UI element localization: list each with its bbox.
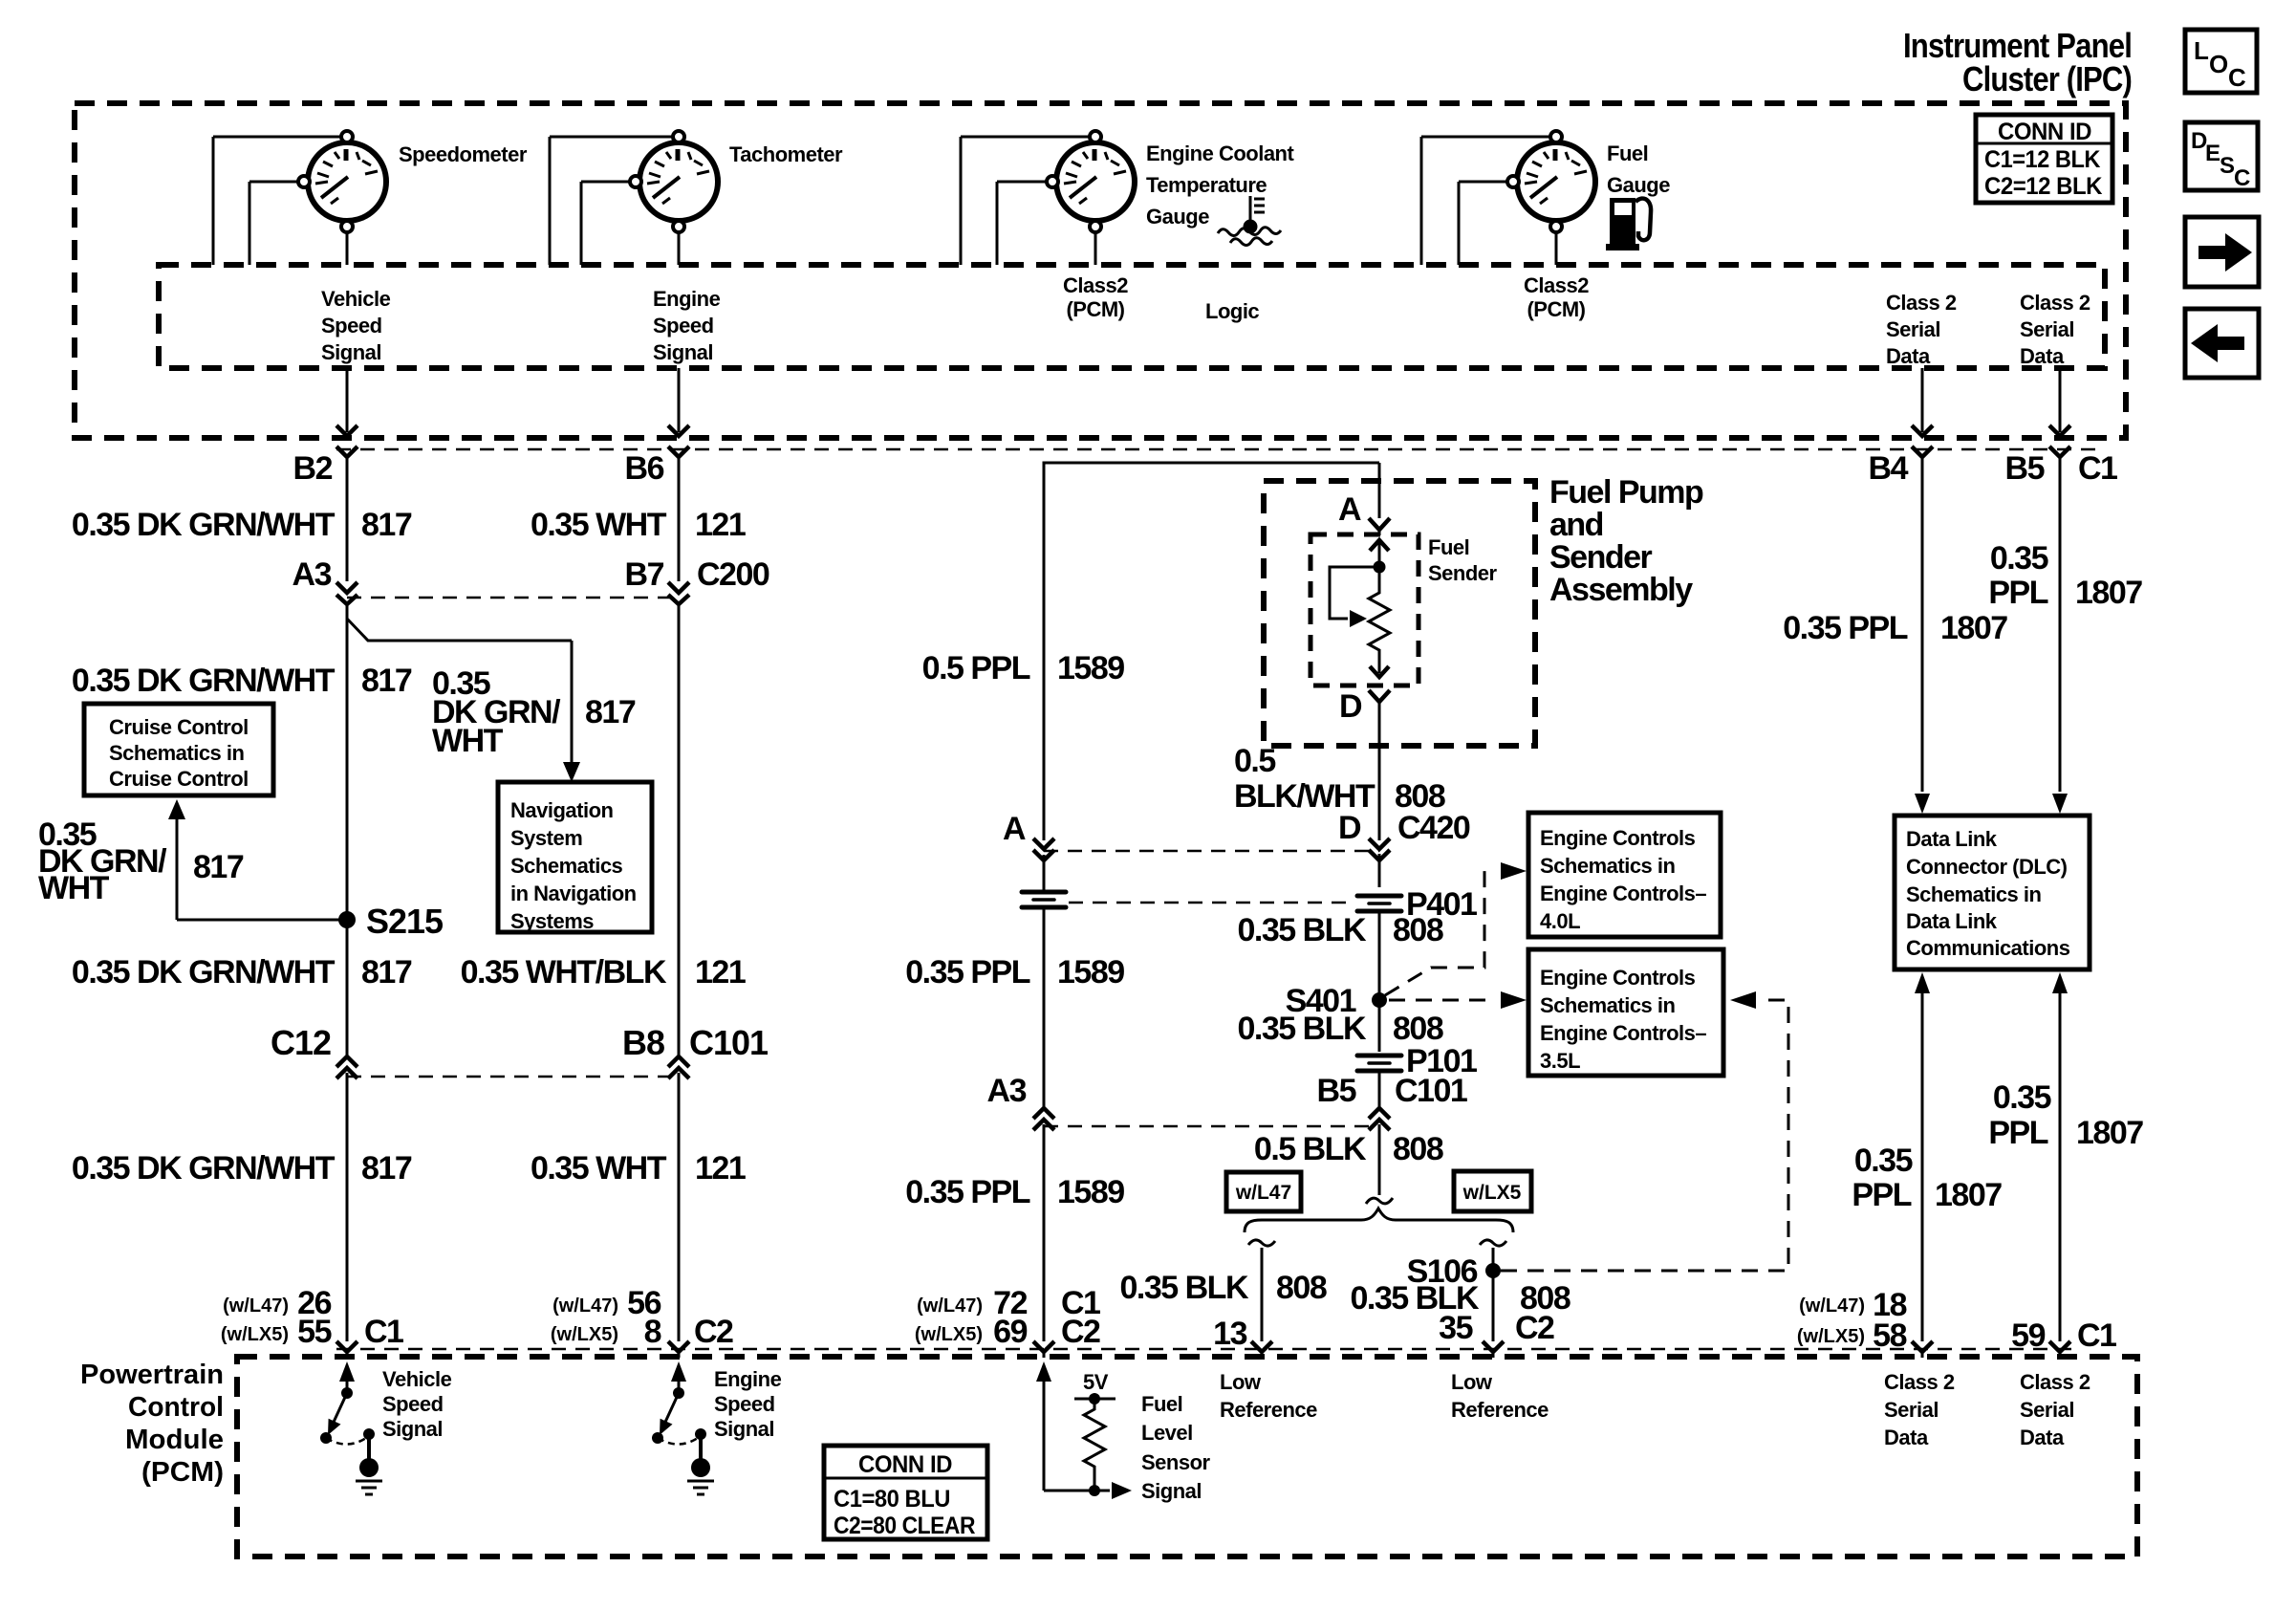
DESC box — [2185, 122, 2258, 191]
wire 1589 segment to inline connector — [1043, 855, 1046, 891]
svg-text:817: 817 — [193, 849, 244, 885]
w/L47 tag box — [1226, 1172, 1301, 1211]
svg-text:Engine: Engine — [714, 1367, 782, 1391]
label Low Reference (w/LX5) — [1451, 1370, 1549, 1422]
ground (ESS) — [687, 1458, 714, 1494]
svg-text:0.35 DK GRN/WHT: 0.35 DK GRN/WHT — [72, 663, 336, 699]
fuel sender potentiometer — [1330, 540, 1390, 677]
svg-text:B7: B7 — [625, 556, 664, 593]
resistor 5V pull-up (PCM) — [1074, 1370, 1116, 1496]
PCM vehicle speed signal switch — [320, 1361, 375, 1460]
svg-text:C1=12 BLK: C1=12 BLK — [1984, 146, 2100, 173]
label 0.5 PPL 1589 — [922, 650, 1125, 686]
svg-text:WHT: WHT — [432, 723, 504, 759]
svg-text:0.35 PPL: 0.35 PPL — [905, 954, 1029, 991]
svg-text:Cluster (IPC): Cluster (IPC) — [1962, 59, 2132, 98]
svg-text:Vehicle: Vehicle — [382, 1367, 452, 1391]
svg-text:0.35 WHT: 0.35 WHT — [531, 1150, 667, 1186]
fuel gauge — [1421, 131, 1595, 265]
svg-text:55: 55 — [297, 1314, 331, 1350]
label 59 / C1 — [2011, 1317, 2116, 1354]
label 0.35 PPL 1807 (B5 top) — [1988, 540, 2142, 611]
svg-text:Speed: Speed — [382, 1392, 444, 1416]
label Class2 (PCM) under ECT gauge — [1063, 273, 1128, 321]
label 35 / C2 — [1439, 1310, 1554, 1346]
wire 817 segment B2-A3 — [346, 457, 349, 581]
svg-text:C420: C420 — [1397, 810, 1470, 846]
wire ESS B6 segment (IPC to connector) — [668, 368, 689, 457]
wire class2 serial B4 (IPC to DLC) — [1912, 368, 1933, 814]
svg-text:Engine: Engine — [653, 287, 721, 311]
svg-text:C101: C101 — [1395, 1073, 1467, 1109]
svg-text:0.5: 0.5 — [1234, 743, 1275, 779]
connector B7/C200 junction — [668, 582, 689, 604]
svg-text:1589: 1589 — [1057, 954, 1124, 991]
fuel pump icon — [1606, 198, 1651, 250]
label Class 2 Serial Data (PCM left) — [1884, 1370, 1955, 1449]
CONN ID table (PCM) — [824, 1446, 987, 1539]
svg-text:B6: B6 — [625, 450, 664, 487]
svg-text:A: A — [1338, 491, 1361, 528]
svg-text:C2: C2 — [1515, 1310, 1554, 1346]
svg-text:(w/L47): (w/L47) — [917, 1295, 983, 1317]
connector B5/C101 junction — [1369, 1072, 1390, 1195]
dashed connector line C200 — [347, 597, 679, 599]
svg-text:Reference: Reference — [1220, 1398, 1317, 1422]
engine controls 3.5L box — [1528, 949, 1723, 1076]
label Engine Speed Signal (IPC) — [653, 287, 721, 364]
svg-text:817: 817 — [361, 1150, 412, 1186]
label B5 / C1 — [2005, 450, 2118, 487]
svg-text:(PCM): (PCM) — [1066, 297, 1124, 321]
right-arrow box — [2185, 217, 2259, 287]
label 0.35 PPL 1807 (B4 lower) — [1852, 1143, 2002, 1213]
svg-text:PPL: PPL — [1988, 1115, 2047, 1151]
svg-text:Data Link: Data Link — [1906, 909, 1998, 933]
svg-text:PPL: PPL — [1988, 575, 2047, 611]
inline connector (PPL pass-through) — [1022, 892, 1066, 907]
svg-text:Navigation: Navigation — [510, 798, 614, 822]
label 0.35 DK GRN/WHT 817 (row2) — [72, 663, 412, 699]
svg-text:L: L — [2194, 36, 2209, 65]
svg-text:w/L47: w/L47 — [1235, 1182, 1291, 1204]
fuel pump and sender assembly box — [1264, 481, 1535, 746]
wire 121 segment B8-PCM — [678, 1073, 681, 1341]
svg-text:1807: 1807 — [1935, 1177, 2002, 1213]
wire 0.35 PPL segment — [1043, 908, 1046, 1109]
label 0.35 DK GRN/WHT 817 (row1) — [72, 507, 412, 543]
speedometer gauge — [213, 131, 386, 265]
svg-text:1807: 1807 — [2076, 1115, 2143, 1151]
label B8 / C101 — [622, 1023, 769, 1062]
connector P101 — [1357, 1056, 1401, 1071]
svg-text:C1=80 BLU: C1=80 BLU — [834, 1486, 950, 1513]
svg-text:Engine Controls: Engine Controls — [1540, 826, 1696, 850]
label (w/L47) 72 / (w/LX5) 69 / C1 C2 — [915, 1285, 1100, 1350]
svg-text:Serial: Serial — [2020, 1398, 2074, 1422]
cruise control box — [84, 704, 273, 795]
svg-text:Fuel Pump: Fuel Pump — [1549, 474, 1703, 511]
svg-text:Engine Controls: Engine Controls — [1540, 966, 1696, 990]
svg-text:WHT: WHT — [38, 870, 110, 906]
svg-text:817: 817 — [361, 507, 412, 543]
svg-text:817: 817 — [361, 954, 412, 991]
label 0.5 BLK/WHT 808 — [1234, 743, 1445, 815]
IPC outer dashed box (Instrument Panel Cluster) — [75, 103, 2126, 438]
label 0.35 PPL 1589 (low) — [905, 1174, 1124, 1210]
label 0.35 DK GRN/ WHT 817 (branch) — [432, 665, 636, 759]
wire class2 serial B5 (IPC to DLC) — [2049, 368, 2070, 814]
svg-text:Module: Module — [125, 1425, 224, 1455]
svg-text:0.35 PPL: 0.35 PPL — [905, 1174, 1029, 1210]
wire 0.35 PPL segment to PCM — [1043, 1124, 1046, 1341]
svg-text:0.5 BLK: 0.5 BLK — [1254, 1131, 1367, 1167]
svg-text:0.35: 0.35 — [1990, 540, 2048, 577]
svg-text:B5: B5 — [1317, 1073, 1356, 1109]
label 0.35 PPL 1807 (B5 lower) — [1988, 1079, 2143, 1151]
svg-text:Low: Low — [1220, 1370, 1262, 1394]
svg-text:(w/LX5): (w/LX5) — [221, 1324, 289, 1345]
connector A/C420 junction (left) — [1033, 838, 1054, 860]
label 0.35 PPL 1589 (mid) — [905, 954, 1124, 991]
svg-text:1807: 1807 — [2075, 575, 2142, 611]
svg-text:Assembly: Assembly — [1549, 572, 1693, 608]
label 0.35 WHT 121 (row1) — [531, 507, 746, 543]
svg-text:Reference: Reference — [1451, 1398, 1549, 1422]
label 0.35 BLK 808 (upper) — [1238, 912, 1443, 948]
svg-text:C2: C2 — [1061, 1314, 1100, 1350]
svg-text:C2=12 BLK: C2=12 BLK — [1984, 173, 2102, 200]
svg-text:(w/L47): (w/L47) — [223, 1295, 289, 1317]
svg-text:0.35 BLK: 0.35 BLK — [1120, 1270, 1249, 1306]
svg-text:System: System — [510, 826, 582, 850]
label Class 2 Serial Data (IPC B5) — [2020, 291, 2090, 368]
svg-text:C12: C12 — [271, 1023, 331, 1062]
label 0.35 DK GRN/WHT 817 (row3) — [72, 954, 412, 991]
connector fork at PCM (ESS) — [668, 1341, 689, 1358]
connector A3/C101 junction (PPL) — [1033, 1108, 1054, 1130]
svg-text:A3: A3 — [987, 1073, 1027, 1109]
svg-text:121: 121 — [695, 954, 746, 991]
label 0.35 WHT 121 (row4) — [531, 1150, 746, 1186]
svg-text:Control: Control — [128, 1392, 224, 1423]
svg-text:B8: B8 — [622, 1023, 664, 1062]
svg-text:58: 58 — [1873, 1317, 1906, 1354]
dashed route S106 to 3.5L box — [1501, 991, 1788, 1271]
svg-text:(w/LX5): (w/LX5) — [551, 1324, 618, 1345]
data link connector box — [1895, 816, 2090, 969]
svg-text:A3: A3 — [292, 556, 332, 593]
svg-text:Fuel: Fuel — [1607, 142, 1648, 165]
label Fuel Level Sensor Signal — [1141, 1392, 1211, 1503]
svg-text:1589: 1589 — [1057, 1174, 1124, 1210]
svg-text:121: 121 — [695, 1150, 746, 1186]
svg-text:A: A — [1003, 811, 1026, 847]
label 0.35 DK GRN/ WHT 817 (cruise branch) — [38, 816, 244, 906]
dashed connector line C101 (left) — [347, 1076, 679, 1078]
dashed route S401 to 3.5L box — [1389, 991, 1527, 1009]
svg-text:Schematics in: Schematics in — [1540, 854, 1676, 878]
label Class2 (PCM) under fuel gauge — [1524, 273, 1589, 321]
svg-text:35: 35 — [1439, 1310, 1472, 1346]
svg-text:C1: C1 — [2078, 450, 2117, 487]
svg-text:0.35 BLK: 0.35 BLK — [1238, 912, 1367, 948]
svg-text:D: D — [1339, 688, 1362, 725]
svg-text:Gauge: Gauge — [1146, 205, 1209, 229]
label Engine Coolant Temperature Gauge — [1146, 142, 1295, 229]
wire VSS B2 segment (IPC to connector) — [336, 368, 357, 457]
svg-text:0.35: 0.35 — [1993, 1079, 2051, 1116]
svg-text:13: 13 — [1213, 1316, 1246, 1352]
svg-text:E: E — [2205, 141, 2220, 166]
svg-text:Data: Data — [1886, 344, 1931, 368]
svg-text:(w/LX5): (w/LX5) — [1797, 1326, 1865, 1347]
svg-text:0.35: 0.35 — [1854, 1143, 1913, 1179]
svg-text:Communications: Communications — [1906, 936, 2070, 960]
fuel sender inner box — [1310, 534, 1419, 686]
svg-text:0.35 DK GRN/WHT: 0.35 DK GRN/WHT — [72, 507, 336, 543]
splice S215 — [338, 902, 444, 941]
svg-text:1807: 1807 — [1940, 610, 2007, 646]
svg-text:4.0L: 4.0L — [1540, 909, 1580, 933]
svg-text:C101: C101 — [689, 1023, 769, 1062]
svg-text:S: S — [2220, 153, 2235, 179]
svg-text:Fuel: Fuel — [1428, 535, 1469, 559]
svg-text:Sender: Sender — [1428, 561, 1498, 585]
navigation system box — [498, 782, 652, 933]
label (w/L47) 18 / (w/LX5) 58 — [1797, 1287, 1907, 1354]
svg-text:Low: Low — [1451, 1370, 1493, 1394]
svg-text:0.35 DK GRN/WHT: 0.35 DK GRN/WHT — [72, 1150, 336, 1186]
svg-text:and: and — [1549, 507, 1603, 543]
svg-text:Signal: Signal — [382, 1417, 443, 1441]
wire 808 w/L47 branch — [1248, 1240, 1275, 1358]
svg-text:w/LX5: w/LX5 — [1462, 1182, 1522, 1204]
connector B8/C101 junction — [668, 1056, 689, 1078]
svg-text:C200: C200 — [697, 556, 769, 593]
svg-text:5V: 5V — [1083, 1370, 1109, 1394]
wire 121 segment B6-B7 — [678, 457, 681, 581]
wire fuel sender feed A — [1369, 463, 1390, 535]
label D / C420 — [1338, 810, 1470, 846]
svg-text:Vehicle: Vehicle — [321, 287, 391, 311]
svg-text:Logic: Logic — [1205, 299, 1259, 323]
svg-text:O: O — [2209, 50, 2228, 78]
wire 808 segment P401-S401 — [1378, 912, 1381, 1052]
wire class2 serial B5 (DLC to PCM) — [2049, 972, 2070, 1358]
svg-text:Data: Data — [2020, 1426, 2065, 1449]
connector fork at PCM (fuel level) — [1033, 1341, 1054, 1358]
svg-text:Class2: Class2 — [1524, 273, 1589, 297]
label 0.35 PPL 1807 (B4) — [1783, 610, 2007, 646]
svg-text:Serial: Serial — [1886, 317, 1940, 341]
dashed connector line C101 (right) — [1044, 1125, 1379, 1128]
svg-text:3.5L: 3.5L — [1540, 1049, 1580, 1073]
label Fuel Pump and Sender Assembly — [1549, 474, 1703, 608]
label Class 2 Serial Data (IPC B4) — [1886, 291, 1957, 368]
svg-text:(w/L47): (w/L47) — [552, 1295, 618, 1317]
label (w/L47) 56 / (w/LX5) 8 / C2 — [551, 1285, 733, 1350]
label B7 / C200 — [625, 556, 769, 593]
svg-text:Data: Data — [1884, 1426, 1929, 1449]
svg-text:Tachometer: Tachometer — [729, 142, 843, 166]
svg-text:Serial: Serial — [2020, 317, 2074, 341]
wire 808 w/LX5 branch — [1480, 1240, 1506, 1358]
svg-text:808: 808 — [1276, 1270, 1327, 1306]
svg-text:Fuel: Fuel — [1141, 1392, 1182, 1416]
svg-text:Data: Data — [2020, 344, 2065, 368]
PCM dashed box — [237, 1357, 2137, 1557]
splice S106 — [1407, 1253, 1501, 1290]
label Engine Speed Signal (PCM) — [714, 1367, 782, 1441]
tachometer gauge — [550, 131, 718, 265]
svg-text:(PCM): (PCM) — [141, 1457, 224, 1488]
svg-text:C2=80 CLEAR: C2=80 CLEAR — [834, 1513, 975, 1539]
connector line above PCM (thin dashed) — [336, 1348, 2074, 1351]
svg-text:PPL: PPL — [1852, 1177, 1911, 1213]
svg-text:B2: B2 — [293, 450, 333, 487]
label 0.35 DK GRN/WHT 817 (row4) — [72, 1150, 412, 1186]
svg-text:121: 121 — [695, 507, 746, 543]
svg-text:0.35 BLK: 0.35 BLK — [1238, 1011, 1367, 1047]
svg-text:Cruise Control: Cruise Control — [109, 767, 249, 791]
svg-text:0.35 DK GRN/WHT: 0.35 DK GRN/WHT — [72, 954, 336, 991]
svg-text:Signal: Signal — [321, 340, 381, 364]
svg-text:Connector (DLC): Connector (DLC) — [1906, 855, 2068, 879]
svg-text:Data Link: Data Link — [1906, 827, 1998, 851]
wire 817 segment A3-S215 — [346, 603, 349, 1059]
svg-text:CONN ID: CONN ID — [1998, 119, 2091, 145]
connector D/C420 junction — [1369, 838, 1390, 887]
wire class2 serial B4 (DLC to PCM) — [1912, 972, 1933, 1358]
svg-text:817: 817 — [361, 663, 412, 699]
dashed connector line C420 — [1044, 850, 1379, 853]
label Low Reference (w/L47) — [1220, 1370, 1317, 1422]
svg-text:Sender: Sender — [1549, 539, 1653, 576]
IPC Logic inner dashed box — [159, 265, 2105, 368]
label Class 2 Serial Data (PCM right) — [2020, 1370, 2090, 1449]
svg-text:Cruise Control: Cruise Control — [109, 715, 249, 739]
label 0.35 BLK 808 (w/L47 branch) — [1120, 1270, 1327, 1306]
svg-text:(w/L47): (w/L47) — [1799, 1295, 1865, 1317]
connector line under IPC (thin dashed) — [336, 448, 2103, 451]
svg-text:Sensor: Sensor — [1141, 1450, 1211, 1474]
svg-text:Gauge: Gauge — [1607, 173, 1670, 197]
svg-text:D: D — [1338, 810, 1361, 846]
svg-text:Serial: Serial — [1884, 1398, 1939, 1422]
svg-text:Engine Controls–: Engine Controls– — [1540, 882, 1706, 905]
wire 121 segment B7-B8 — [678, 603, 681, 1059]
svg-text:C: C — [2228, 63, 2246, 92]
svg-text:CONN ID: CONN ID — [858, 1451, 952, 1478]
svg-text:Engine Controls–: Engine Controls– — [1540, 1021, 1706, 1045]
svg-text:Speedometer: Speedometer — [399, 142, 528, 166]
svg-text:59: 59 — [2011, 1317, 2045, 1354]
brace (harness split) — [1245, 1208, 1513, 1232]
svg-text:Engine Coolant: Engine Coolant — [1146, 142, 1295, 165]
w/LX5 tag box — [1454, 1171, 1531, 1211]
svg-text:Signal: Signal — [1141, 1479, 1202, 1503]
svg-text:Systems: Systems — [510, 909, 594, 933]
label 0.35 WHT/BLK 121 — [461, 954, 746, 991]
connector D fork (fuel pump) — [1369, 690, 1390, 840]
svg-text:Powertrain: Powertrain — [80, 1360, 224, 1390]
svg-text:0.35 PPL: 0.35 PPL — [1783, 610, 1907, 646]
label 0.5 BLK 808 — [1254, 1131, 1443, 1167]
svg-text:0.35 WHT: 0.35 WHT — [531, 507, 667, 543]
svg-text:Class 2: Class 2 — [1886, 291, 1957, 315]
svg-text:0.5 PPL: 0.5 PPL — [922, 650, 1030, 686]
svg-text:Speed: Speed — [714, 1392, 775, 1416]
wire branch to navigation (817) — [347, 619, 580, 782]
PCM engine speed signal switch — [652, 1361, 706, 1460]
svg-text:Schematics in: Schematics in — [109, 741, 245, 765]
svg-text:C2: C2 — [694, 1314, 733, 1350]
svg-text:Class 2: Class 2 — [2020, 1370, 2090, 1394]
svg-text:S215: S215 — [366, 902, 444, 941]
svg-text:C: C — [2234, 165, 2250, 191]
svg-text:in Navigation: in Navigation — [510, 882, 637, 905]
svg-text:Signal: Signal — [714, 1417, 774, 1441]
label 0.35 BLK 808 (lower) — [1238, 1011, 1443, 1047]
svg-text:(w/LX5): (w/LX5) — [915, 1324, 983, 1345]
label Vehicle Speed Signal (PCM) — [382, 1367, 452, 1441]
label B5 / C101 — [1317, 1073, 1467, 1109]
svg-text:Class 2: Class 2 — [2020, 291, 2090, 315]
svg-text:B4: B4 — [1869, 450, 1909, 487]
svg-text:1589: 1589 — [1057, 650, 1124, 686]
LOC box — [2185, 30, 2257, 93]
wire 817 segment C12-PCM — [346, 1073, 349, 1341]
svg-text:C1: C1 — [364, 1314, 403, 1350]
svg-text:Schematics in: Schematics in — [1540, 993, 1676, 1017]
svg-text:Class 2: Class 2 — [1884, 1370, 1955, 1394]
label Instrument Panel Cluster (IPC) — [1903, 26, 2132, 98]
svg-text:(PCM): (PCM) — [1527, 297, 1585, 321]
label Fuel Sender — [1428, 535, 1498, 585]
dashed route S401 to 4.0L box — [1385, 862, 1527, 995]
dashed connector line to P401 — [1069, 902, 1355, 904]
svg-text:Signal: Signal — [653, 340, 713, 364]
svg-text:Temperature: Temperature — [1146, 173, 1267, 197]
wire 1589 PPL corner from fuel pump feed — [1044, 463, 1379, 840]
connector A3/C200 junction — [336, 582, 357, 604]
svg-text:808: 808 — [1393, 1131, 1443, 1167]
ground (VSS) — [356, 1458, 382, 1494]
label Vehicle Speed Signal (IPC) — [321, 287, 391, 364]
wire branch to cruise control (817) — [168, 799, 347, 920]
svg-text:Speed: Speed — [653, 314, 714, 337]
label Powertrain Control Module (PCM) — [80, 1360, 224, 1488]
svg-text:C1: C1 — [2077, 1317, 2116, 1354]
wire end squiggle — [1366, 1198, 1393, 1204]
label 0.35 BLK 808 (S106) — [1351, 1280, 1570, 1317]
svg-text:808: 808 — [1393, 912, 1443, 948]
svg-text:817: 817 — [585, 694, 636, 730]
connector C12/C101 junction — [336, 1056, 357, 1078]
label Fuel Gauge — [1607, 142, 1670, 197]
svg-text:Schematics in: Schematics in — [1906, 882, 2042, 906]
splice S401 — [1286, 983, 1387, 1019]
connector fork at PCM (VSS) — [336, 1341, 357, 1358]
left-arrow box — [2185, 309, 2259, 378]
svg-text:Schematics: Schematics — [510, 854, 623, 878]
CONN ID table (IPC) — [1976, 115, 2112, 203]
label (w/L47) 26 / (w/LX5) 55 / C1 — [221, 1285, 403, 1350]
svg-text:Class2: Class2 — [1063, 273, 1128, 297]
engine controls 4.0L box — [1528, 813, 1721, 937]
svg-text:Level: Level — [1141, 1421, 1193, 1445]
